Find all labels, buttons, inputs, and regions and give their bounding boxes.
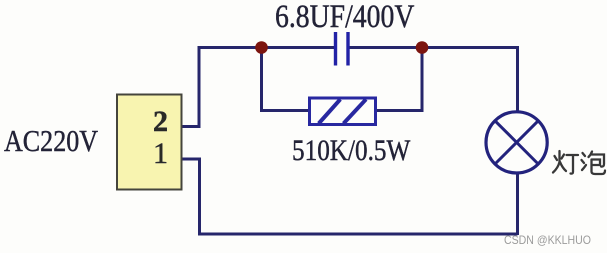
junction dot B (right) xyxy=(416,41,429,54)
wire left vertical from top rail down to pin 2 xyxy=(198,46,201,127)
泡 inner si part xyxy=(592,160,606,175)
wire right branch vertical (junction B down to resistor rail) xyxy=(421,48,424,111)
capacitor C1 6.8UF/400V : left plate xyxy=(334,32,337,66)
wire pin 2 stub xyxy=(181,125,201,128)
wire left branch vertical (junction A down to resistor rail) xyxy=(260,48,263,111)
wire resistor branch left horizontal xyxy=(260,109,310,112)
灯 ding part: top bar and hook xyxy=(567,155,579,174)
capacitor C1 : right plate xyxy=(346,32,349,66)
resistor R1 510K/0.5W : body box xyxy=(310,98,376,125)
label capacitor value 6.8UF/400V xyxy=(275,1,414,34)
resistor R1 : hatch diagonal 1 xyxy=(319,99,341,123)
wire bottom rail xyxy=(198,233,518,236)
label AC220V (source net name) xyxy=(4,125,98,156)
pin number 1 xyxy=(153,139,168,169)
lamp DS1 : X diagonal 2 xyxy=(495,120,539,164)
泡 bao wrapper xyxy=(589,152,605,167)
泡 water radical dots xyxy=(582,153,587,170)
lamp DS1 : X diagonal 1 xyxy=(495,120,539,164)
label resistor value 510K/0.5W xyxy=(292,136,410,166)
watermark CSDN @KKLHUO xyxy=(504,234,591,246)
wire top-right horizontal (right of capacitor) xyxy=(350,46,518,49)
pin number 2 xyxy=(153,107,168,137)
connector J1 : yellow body xyxy=(117,95,182,190)
wire right vertical from lamp down to bottom rail xyxy=(516,174,519,235)
灯 fire radical main strokes xyxy=(553,151,566,173)
灯 fire radical dots xyxy=(555,155,565,161)
wire left vertical from pin 1 down to bottom rail xyxy=(198,159,201,234)
wire pin 1 stub xyxy=(181,158,201,161)
wire top-left horizontal (node A rail, left of capacitor) xyxy=(199,46,334,49)
resistor R1 : hatch diagonal 2 xyxy=(344,99,367,123)
junction dot A (left) xyxy=(255,41,268,54)
lamp DS1 : circle xyxy=(486,112,547,173)
label 灯泡 (lamp, drawn strokes) xyxy=(551,148,607,180)
wire resistor branch right horizontal xyxy=(375,109,424,112)
wire right vertical from top rail down to lamp xyxy=(516,46,519,111)
